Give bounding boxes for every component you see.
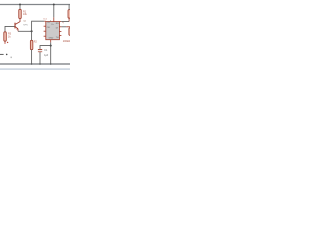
label terminal pin number: [11, 57, 12, 59]
IC pin stub left 2: [44, 25, 46, 27]
svg-text:1µF: 1µF: [44, 55, 49, 57]
wire IC pin2 to vertical: [32, 21, 45, 31]
wire R2 to ground rail: [31, 50, 33, 64]
IC pin stub left 3: [44, 30, 46, 32]
svg-text:OU: OU: [47, 27, 51, 29]
label Q1: [23, 21, 28, 27]
svg-text:R2: R2: [34, 41, 38, 43]
svg-text:8: 8: [50, 21, 51, 23]
wire junction to C1: [40, 46, 51, 49]
node A emitter junction: [31, 30, 33, 32]
svg-text:1k: 1k: [8, 35, 11, 38]
IC top pin V+: [53, 17, 55, 21]
resistor R4 right edge: [68, 10, 71, 19]
wire IC GND down: [50, 42, 52, 45]
label pin 4: [62, 23, 64, 25]
IC pin labels inside: [47, 21, 60, 40]
wire R3 bottom lead open end: [4, 41, 6, 43]
node rail junction GND: [50, 63, 52, 65]
IC right pin stub 3: [59, 31, 61, 33]
node rail junction R2: [31, 63, 33, 65]
wire junction to ground rail: [50, 46, 52, 64]
svg-text:100kΩ: 100kΩ: [63, 40, 70, 43]
svg-text:TH: TH: [56, 37, 59, 39]
svg-text:NPN: NPN: [23, 24, 28, 26]
node rail junction C1: [39, 63, 41, 65]
wire C1 to ground rail: [39, 52, 41, 64]
terminal input lead: [0, 53, 4, 55]
svg-text:10k: 10k: [23, 13, 28, 16]
svg-text:Q1: Q1: [23, 21, 27, 23]
capacitor C1: [38, 50, 42, 52]
node junction IC V+ top rail: [53, 4, 55, 6]
wire R4 bottom lead: [68, 18, 70, 21]
label R2: [34, 41, 38, 43]
IC right pin RST wired to R4: [59, 21, 61, 23]
resistor R1: [19, 9, 22, 18]
label IC1: [43, 18, 47, 20]
svg-text:IC1: IC1: [43, 18, 47, 20]
resistor R3: [4, 32, 7, 41]
transistor Q1: [15, 23, 18, 32]
svg-text:4: 4: [62, 23, 64, 25]
resistor R2: [30, 40, 32, 49]
wire top V+ rail: [0, 4, 70, 6]
resistor R5 right edge cropped: [69, 28, 72, 36]
label C1: [44, 50, 49, 57]
IC bottom pin GND: [50, 40, 52, 43]
label R3 pin number dot: [7, 42, 8, 43]
IC right pin OUT wired off edge: [59, 26, 61, 28]
wire Q1 emitter run to vertical: [18, 30, 32, 32]
op-amp/timer IC U1 body: [46, 22, 60, 40]
wire R1 top lead: [19, 5, 21, 10]
label R3 value: [8, 33, 12, 39]
label R1 value: [23, 10, 28, 16]
IC pin1 stub left wired: [44, 20, 46, 22]
IC pin stub left 4: [44, 35, 46, 37]
label R5 value: [63, 40, 70, 43]
node junction R1/top rail: [19, 4, 21, 6]
wire bottom ground rail: [0, 63, 70, 65]
node GND junction: [50, 45, 52, 47]
wire Q1 base to R3: [5, 26, 15, 31]
IC right pin stub 4: [59, 35, 61, 37]
svg-text:TR: TR: [47, 22, 50, 24]
wire R1 bottom to Q1 collector: [15, 19, 20, 25]
wire top rail to IC V+: [53, 5, 55, 18]
page edge band: [0, 68, 70, 70]
wire node A to R2: [31, 31, 33, 40]
svg-text:GND: GND: [49, 37, 54, 39]
node terminal dot: [6, 54, 8, 56]
svg-text:C1: C1: [44, 50, 48, 52]
wire R4 top to rail: [68, 5, 70, 10]
